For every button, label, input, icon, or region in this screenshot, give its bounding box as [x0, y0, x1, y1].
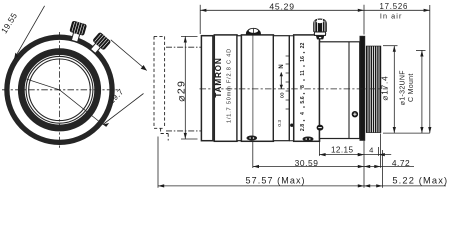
svg-text:11: 11: [300, 70, 306, 76]
svg-text:5.6: 5.6: [300, 96, 306, 103]
svg-text:57.57 (Max): 57.57 (Max): [246, 176, 306, 186]
svg-text:2.8: 2.8: [300, 124, 306, 131]
svg-text:1/1.7 50mm F/2.8 C 4D: 1/1.7 50mm F/2.8 C 4D: [227, 48, 233, 123]
svg-text:N: N: [279, 64, 285, 68]
svg-text:C Mount: C Mount: [408, 73, 415, 102]
svg-text:30.59: 30.59: [295, 158, 319, 168]
svg-text:4: 4: [300, 112, 306, 115]
svg-text:4: 4: [369, 146, 373, 155]
svg-text:8: 8: [300, 85, 306, 88]
svg-text:22: 22: [300, 43, 306, 49]
svg-text:0.3: 0.3: [277, 120, 283, 127]
svg-text:4.72: 4.72: [392, 158, 410, 168]
svg-text:5.22 (Max): 5.22 (Max): [392, 175, 448, 185]
svg-text:17.526: 17.526: [379, 2, 408, 11]
svg-text:12.15: 12.15: [331, 145, 354, 154]
svg-text:45.29: 45.29: [269, 2, 295, 12]
svg-text:TAMRON: TAMRON: [214, 57, 223, 97]
svg-text:∞: ∞: [276, 92, 286, 98]
svg-text:⌀17.4: ⌀17.4: [380, 76, 389, 101]
svg-text:In air: In air: [380, 12, 403, 21]
svg-text:⌀29: ⌀29: [176, 80, 188, 102]
svg-text:16: 16: [300, 56, 306, 62]
svg-text:⌀1-32UNF: ⌀1-32UNF: [400, 70, 407, 105]
